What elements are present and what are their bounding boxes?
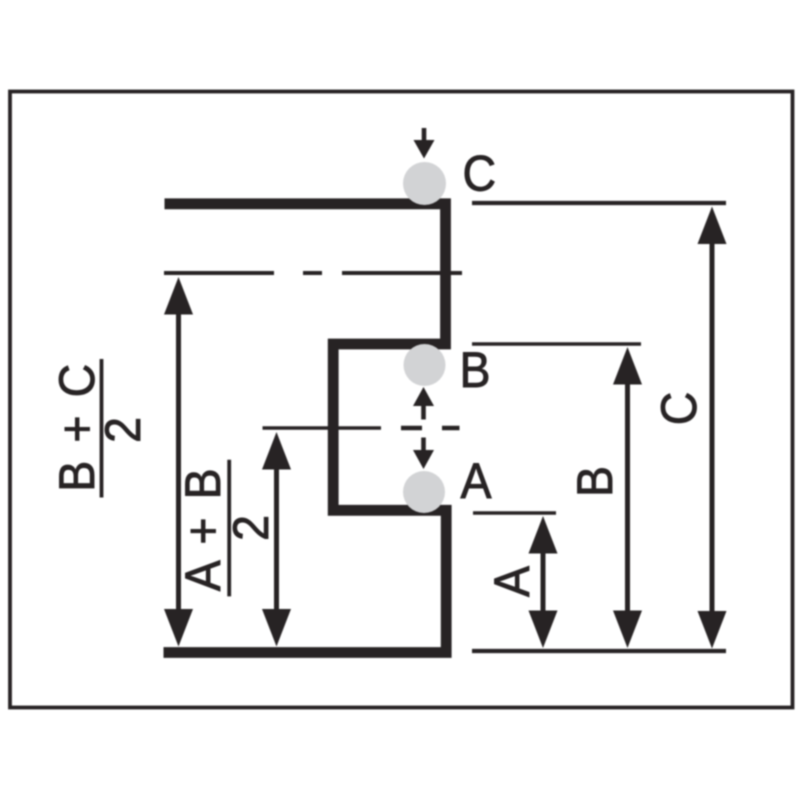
svg-text:B: B: [460, 342, 491, 398]
svg-text:2: 2: [223, 515, 279, 541]
dimension arrow B (double headed): [613, 347, 642, 648]
centre level line (A+B)/2 : dash right of balls: [442, 426, 460, 430]
svg-text:C: C: [651, 392, 707, 426]
small arrow pointing down to ball A: [413, 438, 434, 470]
extension line for C at top: [472, 201, 726, 205]
stepped gauge profile (thick outline): [164, 204, 447, 653]
dimension arrow A (double headed): [529, 516, 558, 648]
svg-text:A: A: [461, 453, 493, 509]
centre level line (A+B)/2 : solid part: [263, 426, 382, 430]
svg-text:C: C: [463, 146, 497, 202]
fraction (B+C)/2 : bar: [100, 359, 104, 498]
svg-text:A: A: [484, 565, 540, 597]
svg-text:2: 2: [95, 417, 151, 443]
extension line for A: [473, 511, 556, 515]
ball A (gray circle): [403, 471, 445, 513]
small arrow pointing down onto ball C: [414, 128, 435, 159]
ball B (gray circle): [404, 344, 446, 386]
centre level line (A+B)/2 : dash left of balls: [401, 426, 422, 430]
ball C (gray circle): [403, 162, 446, 205]
dimension arrow C (double headed): [698, 207, 727, 649]
svg-text:B: B: [567, 466, 623, 497]
bottom reference baseline: [472, 649, 726, 653]
dimension arrow (A+B)/2 (double headed, left): [262, 432, 291, 647]
dimension arrow (B+C)/2 (double headed, left): [164, 277, 193, 647]
small arrow pointing up to ball B: [413, 387, 434, 420]
dash-dot centre line (B+C)/2 level: [164, 271, 462, 275]
extension line for B: [472, 342, 641, 346]
fraction (A+B)/2 : bar: [227, 460, 231, 597]
